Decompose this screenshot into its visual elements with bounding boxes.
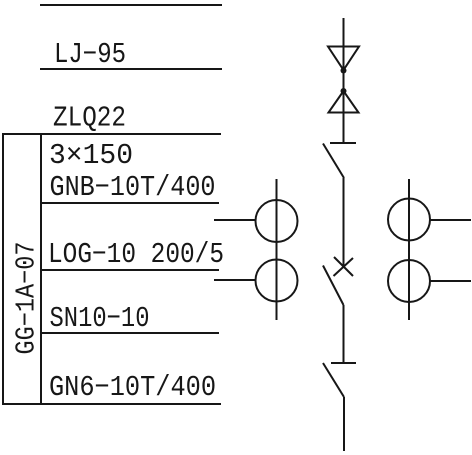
disconnector QS1 fixed contact bar [330, 142, 356, 144]
disconnector QS1 blade [323, 144, 344, 179]
breaker QF contact cross stroke 2 [334, 258, 354, 276]
wire: row line under ZLQ22 (cabinet top) [3, 133, 221, 135]
wire: outgoing feeder [343, 397, 345, 451]
wire: row line under SN10&#8722;10 [41, 332, 219, 334]
wire: incoming lead to arrester [343, 18, 345, 143]
wire: row line under LOG&#8722;10 200/5 [41, 269, 219, 271]
svg-text:SN10−10: SN10−10 [50, 302, 150, 335]
current transformer TA1 lower winding [256, 260, 298, 302]
svg-text:GN6−10T/400: GN6−10T/400 [49, 371, 216, 404]
wire: breaker to disconnector QS2 [343, 305, 345, 362]
current transformer TA2 upper winding [388, 199, 430, 241]
svg-text:GG−1A−07: GG−1A−07 [12, 242, 42, 355]
wire: left CT primary conductor [276, 179, 278, 320]
cabinet box GG-1A-07 [3, 134, 41, 404]
wire: row line under GNB&#8722;10T/400 [41, 202, 219, 204]
wire: incoming line top bus segment [40, 4, 222, 6]
disconnector QS2 blade [323, 363, 344, 397]
svg-text:GNB−10T/400: GNB−10T/400 [50, 171, 216, 204]
wire: TA1 lower secondary tap [214, 279, 256, 281]
disconnector QS2 fixed contact bar [331, 362, 356, 364]
wire: QS1 to breaker [343, 178, 345, 267]
wire: TA2 lower secondary tap [430, 280, 471, 282]
current transformer TA1 upper winding [256, 200, 298, 242]
wire: row line under LJ&#8722;95 [40, 68, 222, 70]
wire: TA1 upper secondary tap [214, 219, 256, 221]
arrester gap electrode dot lower [341, 88, 347, 94]
svg-text:LJ−95: LJ−95 [54, 38, 126, 71]
breaker QF blade [323, 266, 344, 306]
wire: TA2 upper secondary tap [430, 219, 471, 221]
arrester F1 lower triangle (up) [329, 91, 359, 113]
breaker QF contact cross stroke 1 [334, 257, 353, 276]
wire: right CT primary conductor [408, 179, 410, 320]
svg-text:3×150: 3×150 [49, 139, 133, 172]
svg-text:ZLQ22: ZLQ22 [53, 102, 126, 135]
arrester gap electrode dot upper [341, 68, 347, 74]
svg-text:LOG−10 200/5: LOG−10 200/5 [48, 238, 224, 271]
wire: row line under GN6&#8722;10T/400 (cabinet bottom) [3, 403, 221, 405]
arrester F1 upper triangle (down) [328, 47, 359, 71]
current transformer TA2 lower winding [388, 260, 430, 302]
